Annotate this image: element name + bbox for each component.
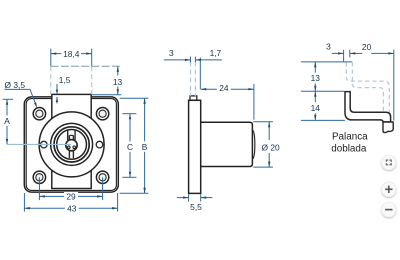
text 13 — [113, 76, 124, 87]
key slot right edge — [74, 129, 76, 140]
dim 43 extension right — [117, 193, 119, 212]
text dia 20 — [258, 140, 284, 153]
dim B line — [144, 98, 146, 193]
dim 13 line — [117, 66, 119, 94]
svg-text:Ø 3,5: Ø 3,5 — [5, 80, 26, 90]
svg-text:5,5: 5,5 — [190, 202, 202, 212]
dim 5,5 ext right — [200, 194, 202, 201]
lock body (side) — [189, 100, 201, 193]
dim 13/14 middle tick — [301, 90, 345, 92]
button zoom-in circle — [382, 182, 397, 197]
dim dia20 bottom tick — [253, 166, 273, 168]
arrow 3 right — [338, 52, 344, 54]
dim 29 line — [39, 195, 102, 197]
tick 3 right — [349, 50, 351, 58]
rosette ring inner — [57, 130, 87, 160]
dim 43 line — [24, 207, 117, 209]
svg-text:43: 43 — [67, 204, 77, 214]
arrow 1,5 down — [56, 90, 58, 95]
arrow dia 3,5 — [34, 102, 37, 108]
extension vertical body back — [199, 58, 201, 90]
bent lever solid arm — [345, 92, 391, 122]
dim 13 tab-top extension line — [92, 94, 122, 96]
lever alternate position dashed inner — [352, 62, 383, 112]
key tongue upper top edge — [69, 134, 73, 136]
side notch circle left — [41, 141, 48, 148]
arrow A up — [6, 99, 8, 105]
arrow 20 right — [388, 52, 394, 54]
svg-text:A: A — [4, 116, 10, 126]
cylinder end cap edge — [253, 130, 255, 159]
svg-text:13: 13 — [113, 77, 123, 87]
screw hole bottom-left — [33, 171, 45, 183]
svg-text:doblada: doblada — [331, 144, 367, 155]
arrow 29 left — [39, 195, 45, 197]
front view arrowheads — [6, 52, 146, 209]
arrow 1,5 up — [56, 97, 58, 102]
rosette ring outer — [54, 127, 89, 162]
dim A line — [6, 99, 8, 144]
key slot left edge — [67, 129, 69, 140]
text 24 — [217, 84, 231, 94]
arrow 5,5 right — [183, 196, 189, 198]
svg-text:Ø 20: Ø 20 — [262, 142, 280, 152]
dim 13 line — [314, 62, 316, 91]
zoom-out minus icon — [385, 209, 392, 211]
dim 24 line — [201, 88, 254, 90]
dim 3/20 line seg1 — [332, 52, 344, 54]
arrow 43 left — [24, 207, 30, 209]
key tongue upper left — [68, 135, 70, 140]
svg-text:14: 14 — [311, 103, 321, 113]
arrow 13 up — [314, 62, 316, 68]
dim 29 extension right through hole — [102, 177, 104, 200]
svg-text:18,4: 18,4 — [63, 49, 80, 59]
projection line dashed left — [50, 66, 52, 94]
tick at 190.5 — [190, 57, 192, 63]
dim C bottom tick — [122, 176, 136, 178]
ext 20 right — [393, 50, 395, 121]
arrow A down — [6, 139, 8, 145]
projection dashed vertical 1 — [190, 62, 192, 97]
lever arrowheads — [314, 52, 394, 120]
dim 5,5 ext left — [188, 194, 190, 201]
arrow B up — [143, 98, 145, 104]
arrow 20 left — [350, 52, 356, 54]
plate outer outline — [24, 97, 118, 192]
arrow 3 right — [185, 59, 191, 61]
svg-text:3: 3 — [169, 48, 174, 58]
svg-text:Palanca: Palanca — [332, 132, 368, 143]
arrow 13 bottom — [117, 89, 119, 95]
dim 1,5 leader lower — [56, 97, 58, 104]
svg-text:24: 24 — [219, 83, 229, 93]
arrow 43 right — [112, 207, 118, 209]
dim C line — [129, 114, 131, 178]
arrow 14 up — [314, 91, 316, 97]
dim 18,4 line — [51, 53, 92, 55]
text B — [140, 141, 149, 152]
screw hole bottom-right — [96, 171, 108, 183]
arrow dia20 up — [268, 122, 270, 128]
front view dimension texts — [3, 49, 149, 213]
arrow 29 right — [97, 195, 103, 197]
svg-text:C: C — [127, 142, 133, 152]
dim 5,5 left segment — [177, 197, 189, 199]
side notch circle right — [96, 141, 103, 148]
arrow 14 down — [314, 115, 316, 121]
arrow 18,4 left — [51, 52, 57, 54]
arrow dia20 down — [268, 162, 270, 168]
tick 3 left / extension — [343, 50, 345, 62]
key tongue upper right — [72, 135, 74, 140]
dim 24 right extension — [253, 84, 255, 120]
dia 3,5 underline — [5, 88, 31, 90]
arrow C up — [129, 114, 131, 120]
centerline through lock center — [8, 143, 71, 145]
dim B bottom tick — [120, 192, 149, 194]
svg-text:3: 3 — [326, 41, 331, 51]
dim 1,5 leader upper — [56, 84, 58, 90]
button zoom-out circle — [382, 202, 397, 217]
tick at 195.4 — [194, 57, 196, 63]
dim 3 / 1,7 line left segment — [164, 59, 191, 61]
dim 13/14 bottom tick — [301, 119, 345, 121]
key tongue lower right — [72, 150, 74, 158]
arrow 24 right — [248, 88, 254, 90]
bent lever tip flap — [383, 122, 393, 133]
dim 5,5 right segment — [201, 197, 213, 199]
svg-text:B: B — [142, 142, 148, 152]
zoom-in plus icon — [385, 186, 392, 193]
projection line dashed right — [91, 66, 93, 94]
lever alternate position dashed outer — [346, 62, 389, 121]
cylinder (side) — [201, 122, 253, 166]
side view arrowheads — [183, 59, 270, 199]
text 18,4 — [62, 49, 82, 58]
dim 13/14 top tick — [301, 61, 352, 63]
button expand circle — [382, 155, 397, 170]
side view dimension texts — [169, 48, 284, 212]
screw hole top-left — [33, 108, 45, 120]
arrow 24 left — [201, 88, 207, 90]
text 14 — [310, 102, 321, 113]
dim dia20 top tick — [253, 121, 273, 123]
rosette circle 2 — [51, 123, 93, 165]
arrow C down — [129, 172, 131, 178]
key hub — [66, 140, 77, 151]
key tongue lower left — [68, 150, 70, 158]
plate inner outline — [26, 99, 116, 191]
dim 18,4 extension lines — [50, 49, 52, 67]
svg-text:29: 29 — [66, 192, 76, 202]
text A — [3, 116, 11, 127]
bolt housing with latch tab — [52, 94, 91, 188]
dim C top tick — [122, 113, 136, 115]
lever dimension texts — [310, 41, 372, 113]
arrow 5,5 left — [201, 196, 207, 198]
hub pin right — [73, 146, 76, 149]
arrow B down — [143, 188, 145, 194]
dim 29 extension left through hole — [38, 177, 40, 200]
svg-text:1,5: 1,5 — [59, 75, 71, 85]
expand icon — [386, 160, 392, 166]
dim 3/20 line seg2 — [350, 52, 363, 54]
dia 3,5 leader — [30, 89, 36, 103]
arrow 1,7 left — [196, 59, 202, 61]
dim B top tick — [120, 97, 149, 99]
arrow 13 down — [314, 86, 316, 92]
text C — [126, 141, 135, 152]
latch tab (side) — [190, 96, 197, 100]
text 13 — [310, 73, 321, 84]
svg-text:20: 20 — [362, 42, 372, 52]
dim 3 / 1,7 line right segment — [196, 59, 222, 61]
text 29 — [64, 192, 78, 201]
dim dia20 line — [268, 122, 270, 167]
text 43 — [65, 204, 79, 213]
svg-text:13: 13 — [311, 73, 321, 83]
arrow 13 top — [117, 66, 119, 72]
dim A top tick — [3, 98, 13, 100]
projection line horizontal dashed (bolt extended) — [51, 65, 122, 67]
screw hole top-right — [96, 108, 108, 120]
hub pin left — [68, 146, 71, 149]
dim 14 line — [314, 91, 316, 120]
arrow 18,4 right — [86, 52, 92, 54]
rosette outer circle — [39, 112, 104, 177]
dim 43 extension left — [23, 193, 25, 212]
projection dashed vertical 2 — [194, 62, 196, 97]
svg-text:1,7: 1,7 — [210, 48, 222, 58]
dim 3/20 line seg3 — [371, 52, 394, 54]
